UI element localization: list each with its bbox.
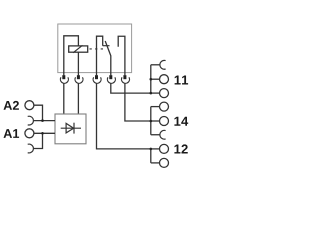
bridge hook A1	[28, 144, 34, 153]
wire A1 into block	[34, 132, 55, 134]
wire pin4 to terminal 11 bus	[111, 83, 151, 93]
socket 4	[107, 77, 115, 83]
relay coil K1	[69, 46, 88, 52]
diode V1 cathode bar	[73, 123, 75, 134]
junction 11a	[150, 78, 153, 81]
stub to circle 11a	[151, 78, 160, 80]
label A1	[4, 129, 20, 138]
wire A1 hook up to circle wire	[33, 133, 42, 148]
label 14	[174, 117, 188, 126]
pin 3	[95, 75, 98, 79]
relay module outline K1	[58, 24, 132, 73]
terminal 14 bus	[150, 107, 152, 135]
terminal circle 11b	[160, 89, 169, 98]
mechanical link (dashed)	[90, 48, 104, 50]
bridge hook 11	[160, 60, 166, 69]
diode V1 triangle	[66, 123, 74, 132]
stub to circle 14a	[151, 106, 160, 108]
wire pin5 to terminal 14 bus	[125, 83, 151, 121]
pin 5	[123, 75, 126, 79]
coil diagonal	[73, 45, 83, 53]
label 11	[175, 76, 188, 85]
contact blade	[105, 41, 111, 75]
terminal circle 12b	[160, 158, 169, 167]
stub to circle 14b	[151, 120, 160, 122]
junction 12	[150, 148, 153, 151]
wire NO contact loop (stub up and over to terminal 5)	[118, 36, 125, 75]
wire coil bottom to pin 2	[77, 52, 79, 75]
socket 1	[60, 77, 68, 83]
socket 5	[122, 77, 130, 83]
stub to circle 11b	[151, 92, 160, 94]
socket 3	[93, 77, 101, 83]
terminal circle 12a	[160, 144, 169, 153]
wire coil loop (terminal 1 up and over to coil top)	[64, 36, 79, 76]
wire NC contact loop (terminal 3 up, over, down to seat)	[97, 36, 103, 75]
junction A1	[41, 132, 44, 135]
junction 11	[150, 92, 153, 95]
stub to hook 14	[151, 134, 160, 136]
terminal 12 bus	[150, 149, 152, 163]
socket 2	[75, 77, 83, 83]
stub to circle 12a	[151, 148, 160, 150]
wire pin3 to terminal 12 bus	[97, 83, 151, 148]
wire A2 circle to bridge row	[34, 105, 43, 120]
bridge hook 14	[160, 130, 166, 139]
terminal A1 screw circle	[25, 129, 34, 138]
terminal circle 14a	[160, 102, 169, 111]
terminal 11 bus	[150, 65, 152, 93]
wire pin2 to input block	[77, 83, 79, 114]
junction A2	[41, 119, 44, 122]
stub to hook 11	[151, 64, 160, 66]
pin 1	[62, 75, 65, 79]
NC contact seat	[103, 45, 110, 47]
input protection block	[55, 114, 86, 144]
pin 2	[77, 75, 80, 79]
stub to circle 12b	[151, 162, 160, 164]
label 12	[174, 144, 187, 153]
wire pin1 to input block	[63, 83, 65, 114]
label A2	[4, 101, 19, 110]
terminal circle 14b	[160, 117, 169, 126]
pin 4	[109, 75, 112, 79]
terminal circle 11a	[160, 75, 169, 84]
junction 14	[150, 120, 153, 123]
terminal A2 screw circle	[25, 101, 34, 110]
diode V1 lead	[61, 127, 81, 129]
bridge hook A2	[28, 116, 34, 125]
wire A2 into block	[33, 120, 55, 122]
